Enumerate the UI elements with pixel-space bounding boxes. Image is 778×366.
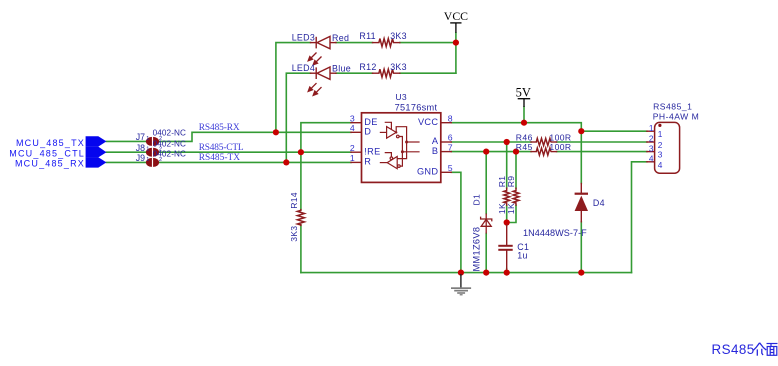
svg-text:LED4: LED4 (292, 63, 315, 73)
svg-text:0402-NC: 0402-NC (153, 150, 186, 159)
svg-text:RS485_1: RS485_1 (653, 102, 692, 112)
svg-text:LED3: LED3 (292, 33, 315, 43)
svg-text:MCU_485_CTL: MCU_485_CTL (9, 148, 85, 158)
svg-text:D4: D4 (593, 198, 605, 208)
svg-text:75176smt: 75176smt (395, 102, 438, 112)
svg-text:1: 1 (146, 147, 149, 153)
svg-text:2: 2 (159, 136, 162, 142)
svg-text:3K3: 3K3 (289, 226, 299, 242)
svg-text:RS485: RS485 (712, 342, 755, 357)
svg-text:A: A (432, 136, 439, 146)
svg-text:J8: J8 (136, 143, 146, 153)
svg-text:4: 4 (350, 123, 355, 133)
svg-text:4: 4 (658, 160, 663, 170)
svg-text:VCC: VCC (418, 117, 438, 127)
svg-text:2: 2 (159, 157, 162, 163)
svg-text:R11: R11 (359, 31, 376, 41)
svg-text:R12: R12 (359, 62, 376, 72)
svg-text:5V: 5V (516, 85, 531, 99)
svg-text:RS485-CTL: RS485-CTL (199, 143, 244, 153)
svg-text:MM1Z6V8: MM1Z6V8 (472, 227, 482, 272)
svg-text:R9: R9 (506, 176, 516, 188)
svg-text:2: 2 (350, 143, 355, 153)
svg-text:0402-NC: 0402-NC (153, 129, 186, 138)
svg-text:RS485-RX: RS485-RX (199, 123, 240, 133)
svg-text:2: 2 (159, 147, 162, 153)
svg-text:1: 1 (350, 153, 355, 163)
svg-text:GND: GND (417, 167, 438, 177)
svg-text:Red: Red (332, 33, 349, 43)
svg-text:1: 1 (649, 123, 654, 133)
svg-text:1u: 1u (517, 251, 527, 261)
svg-text:3K3: 3K3 (390, 62, 407, 72)
svg-text:RS485-TX: RS485-TX (199, 153, 241, 163)
svg-text:VCC: VCC (444, 9, 468, 23)
svg-text:100R: 100R (549, 132, 571, 142)
svg-text:100R: 100R (549, 142, 571, 152)
svg-text:DE: DE (364, 117, 377, 127)
svg-text:B: B (432, 146, 438, 156)
svg-text:MCU_485_TX: MCU_485_TX (16, 138, 85, 148)
svg-text:R46: R46 (516, 132, 533, 142)
svg-text:R14: R14 (289, 192, 299, 209)
svg-text:4: 4 (649, 154, 654, 164)
svg-text:2: 2 (658, 140, 663, 150)
svg-text:!RE: !RE (364, 146, 380, 156)
svg-text:6: 6 (448, 133, 453, 143)
svg-text:3: 3 (658, 150, 663, 160)
svg-text:J9: J9 (136, 153, 146, 163)
svg-text:D: D (364, 127, 371, 137)
svg-text:R: R (364, 157, 371, 167)
svg-text:2: 2 (649, 134, 654, 144)
svg-text:5: 5 (448, 163, 453, 173)
svg-text:1K: 1K (506, 203, 516, 214)
svg-text:R45: R45 (516, 142, 533, 152)
svg-text:8: 8 (448, 114, 453, 124)
svg-text:D1: D1 (472, 194, 482, 206)
svg-text:7: 7 (448, 142, 453, 152)
svg-text:1N4448WS-7-F: 1N4448WS-7-F (523, 228, 587, 238)
svg-text:0402-NC: 0402-NC (153, 140, 186, 149)
svg-text:1: 1 (146, 136, 149, 142)
svg-text:PH-4AW M: PH-4AW M (653, 111, 700, 121)
svg-text:MCU_485_RX: MCU_485_RX (15, 159, 85, 169)
svg-text:J7: J7 (136, 132, 146, 142)
svg-text:3K3: 3K3 (390, 31, 407, 41)
svg-text:U3: U3 (395, 92, 407, 102)
svg-text:Blue: Blue (332, 64, 351, 74)
svg-text:1: 1 (658, 129, 663, 139)
svg-text:3: 3 (649, 143, 654, 153)
svg-text:1: 1 (146, 157, 149, 163)
